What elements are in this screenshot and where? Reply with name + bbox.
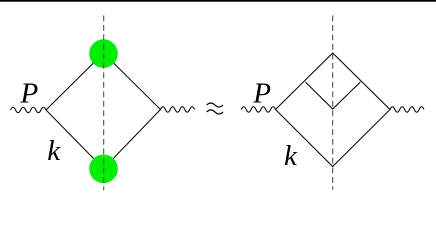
photon line outgoing (left diagram) xyxy=(161,107,195,112)
top rule xyxy=(0,0,436,2)
blob bottom (left diagram) xyxy=(89,155,118,184)
svg-text:P: P xyxy=(252,78,271,110)
outer diamond (right diagram) xyxy=(276,53,391,167)
photon line outgoing (right diagram) xyxy=(390,107,424,112)
inner diamond lines (right diagram) xyxy=(305,82,360,109)
quark loop diamond (left diagram) xyxy=(46,53,161,169)
svg-text:k: k xyxy=(47,135,61,167)
svg-text:k: k xyxy=(284,140,298,172)
svg-text:P: P xyxy=(20,78,39,110)
approx symbol xyxy=(207,103,223,114)
photon line P incoming (right diagram) xyxy=(241,107,275,112)
cut line (left diagram) xyxy=(103,15,105,190)
photon line P incoming (left diagram) xyxy=(11,107,47,112)
blob top (left diagram) xyxy=(89,39,118,68)
cut line (right diagram) xyxy=(332,15,334,189)
